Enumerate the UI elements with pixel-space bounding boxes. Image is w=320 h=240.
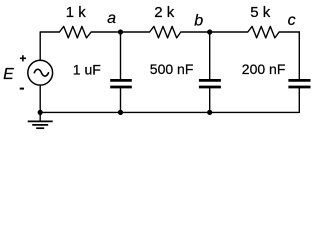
svg-text:a: a xyxy=(107,10,116,27)
svg-text:5 k: 5 k xyxy=(250,4,271,21)
svg-text:500 nF: 500 nF xyxy=(150,61,194,77)
svg-text:1 k: 1 k xyxy=(66,4,87,21)
svg-text:E: E xyxy=(3,66,14,83)
svg-text:b: b xyxy=(194,13,203,30)
svg-text:1 uF: 1 uF xyxy=(73,61,101,77)
svg-text:200 nF: 200 nF xyxy=(242,61,286,77)
svg-text:2 k: 2 k xyxy=(154,4,175,21)
svg-text:c: c xyxy=(288,12,296,29)
